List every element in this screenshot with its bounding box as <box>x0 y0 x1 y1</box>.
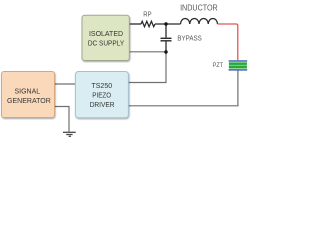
svg-text:TS250: TS250 <box>91 83 112 90</box>
svg-text:DRIVER: DRIVER <box>90 102 115 109</box>
svg-text:INDUCTOR: INDUCTOR <box>180 3 218 13</box>
svg-text:BYPASS: BYPASS <box>177 35 202 42</box>
svg-text:DC SUPPLY: DC SUPPLY <box>88 40 125 47</box>
svg-text:PIEZO: PIEZO <box>92 92 111 99</box>
svg-text:GENERATOR: GENERATOR <box>7 98 51 105</box>
svg-text:ISOLATED: ISOLATED <box>89 31 123 38</box>
svg-text:SIGNAL: SIGNAL <box>14 89 40 96</box>
svg-text:PZT: PZT <box>213 63 224 69</box>
svg-text:RP: RP <box>143 11 151 19</box>
